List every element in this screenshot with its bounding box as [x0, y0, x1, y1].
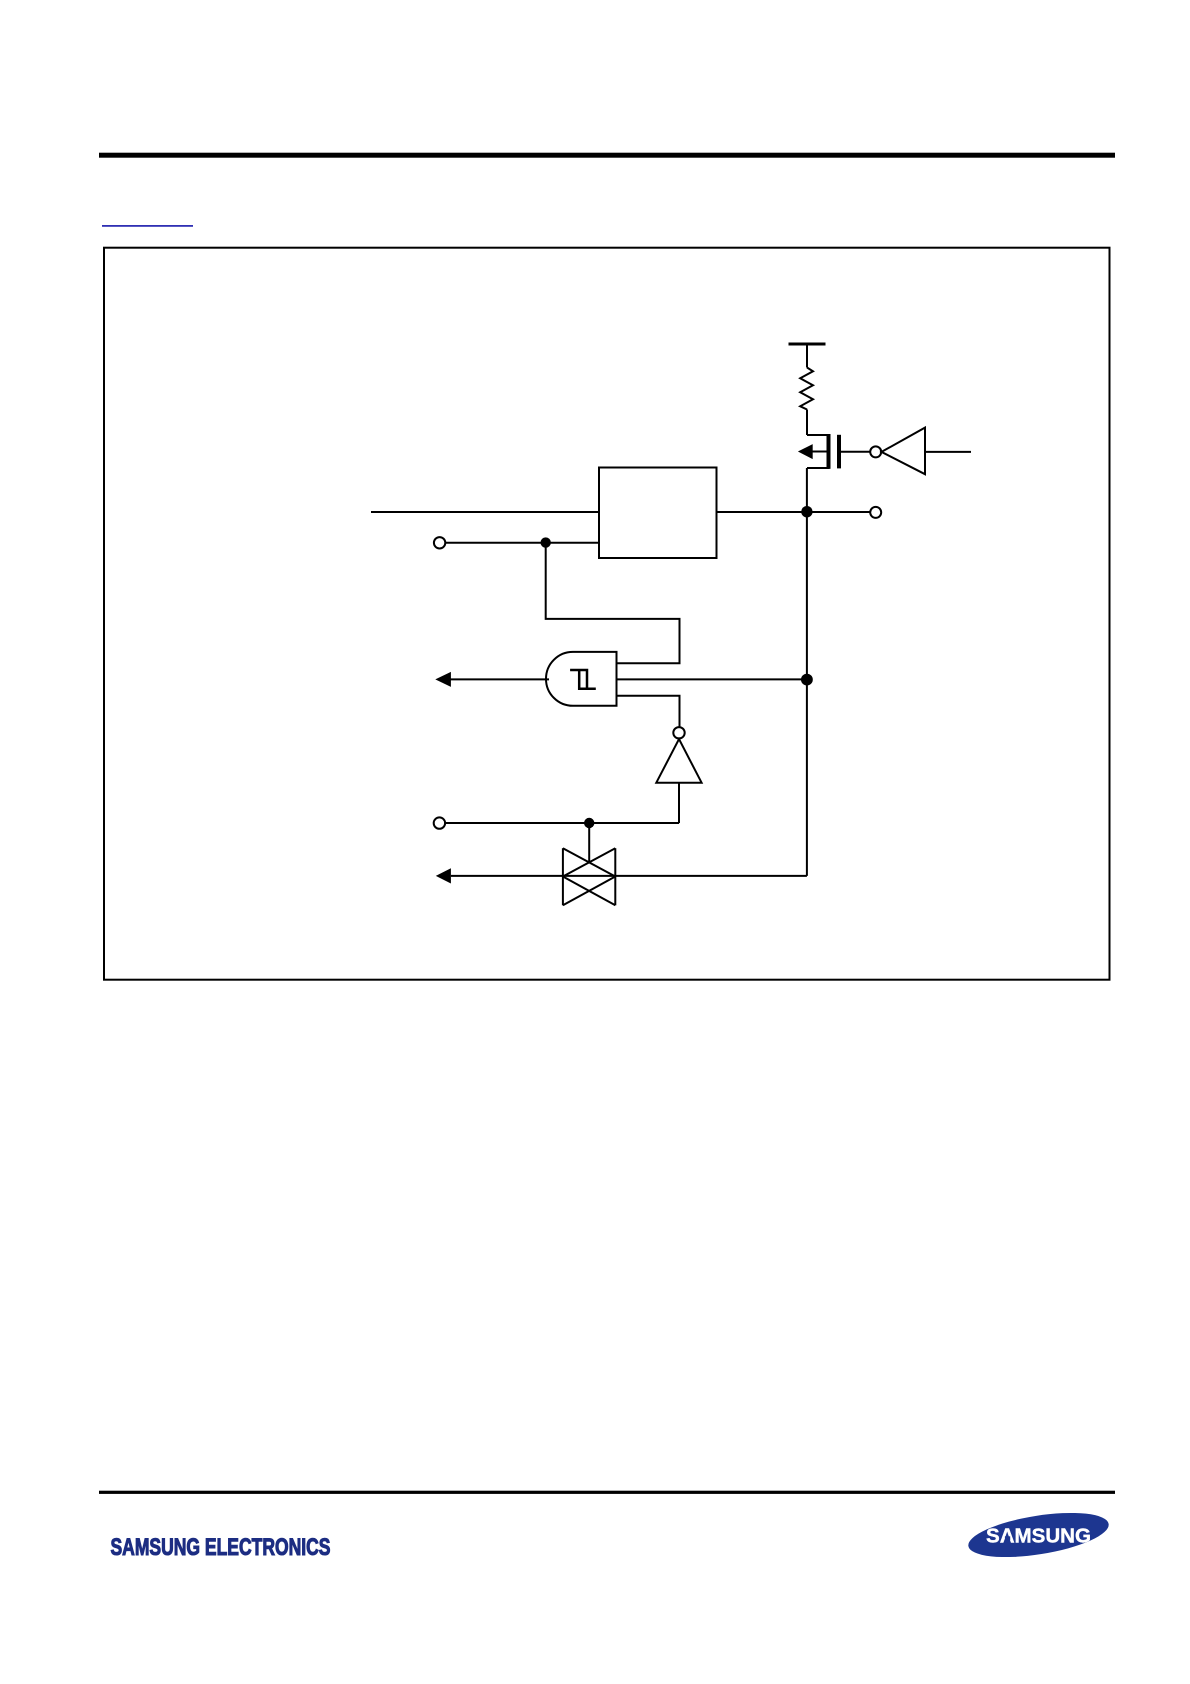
svg-text:SAMSUNG ELECTRONICS: SAMSUNG ELECTRONICS: [111, 1534, 331, 1561]
svg-text:SAMSUNG: SAMSUNG: [986, 1526, 1091, 1548]
